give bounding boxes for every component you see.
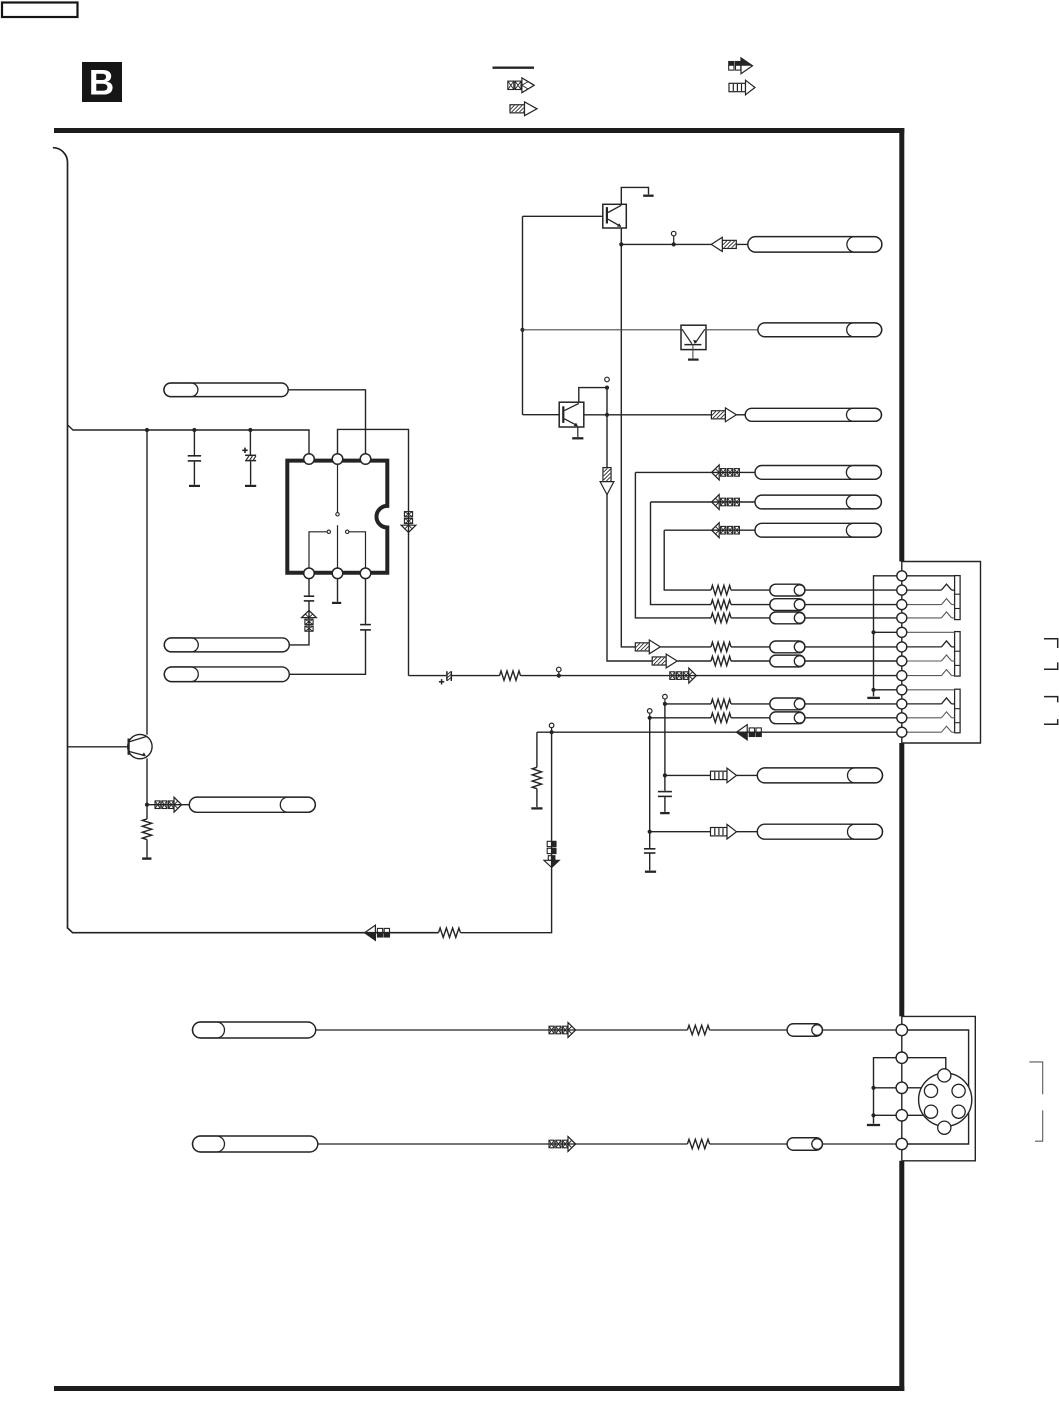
svg-text:B: B — [89, 64, 114, 103]
